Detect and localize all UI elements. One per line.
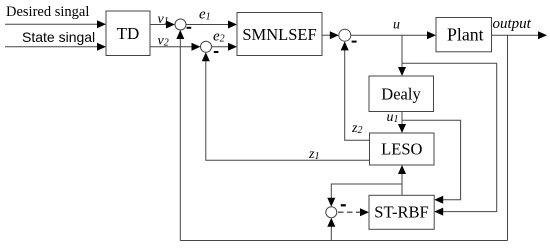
arrow into ST-RBF right 1 (434, 196, 443, 204)
block Dealy (369, 76, 434, 112)
arrow into TD (desired) (97, 20, 106, 28)
wire state-signal input (5, 46, 98, 48)
label u (393, 17, 400, 32)
wire dashed sum4 to ST-RBF (338, 211, 361, 213)
svg-text:u: u (393, 17, 400, 32)
arrow into sum2 from v2 (192, 43, 201, 51)
arrow into sum1 from v1 (166, 21, 175, 29)
wire e1 (186, 24, 229, 26)
wire bus up to sum1 (179, 38, 181, 241)
block TD (106, 11, 150, 56)
arrow output end (538, 31, 547, 39)
wire bottom bus (180, 240, 507, 242)
wire v2 (150, 46, 193, 48)
wire u1 branch to ST-RBF right input 1 (402, 120, 461, 200)
label e1 (199, 6, 211, 22)
minus sign at S1 (187, 27, 192, 29)
summing junction S1 (175, 19, 186, 30)
minus sign at S2 (214, 51, 219, 53)
summing junction S2 (201, 41, 212, 52)
arrow into TD (state) (97, 43, 106, 51)
wire z2 to sum3 (345, 49, 370, 141)
arrow into SMNLSEF e2 (228, 43, 237, 51)
label Desired singal (6, 4, 89, 20)
minus sign at S3 (352, 41, 357, 43)
wire u to ST-RBF right input 2 (402, 63, 497, 211)
label v1 (158, 12, 169, 27)
arrow into ST-RBF right 2 (434, 208, 443, 216)
label z1 (308, 147, 319, 162)
arrow into SMNLSEF e1 (228, 21, 237, 29)
wire bus up to sum4 (330, 225, 332, 241)
svg-text:Desired singal: Desired singal (6, 4, 89, 20)
svg-text:ST-RBF: ST-RBF (374, 203, 428, 222)
svg-text:LESO: LESO (381, 140, 422, 159)
wire desired-signal input (5, 23, 98, 25)
label v2 (158, 34, 169, 49)
wire z1 to sum2 (206, 60, 370, 161)
minus sign at S4 (341, 204, 346, 206)
arrow into Dealy top (398, 67, 406, 76)
arrow into sum3 bottom (341, 41, 349, 50)
label State singal (22, 29, 95, 45)
arrow into Plant (427, 31, 436, 39)
wire output feedback down (507, 35, 509, 240)
arrow into sum3 (330, 31, 339, 39)
arrow into sum1 bottom (176, 30, 184, 39)
label u1 (387, 110, 399, 125)
arrow into sum4 top (327, 198, 335, 207)
wire branch to sum4 top (331, 184, 402, 200)
arrow into sum4 bottom (327, 218, 335, 227)
arrow into LESO bottom (398, 165, 406, 174)
block SMNLSEF (237, 13, 322, 56)
wire SMNLSEF to sum3 (322, 34, 331, 36)
label z2 (351, 121, 362, 136)
svg-text:Plant: Plant (447, 24, 484, 44)
wire Dealy to LESO u1 (401, 112, 403, 126)
label output (493, 16, 532, 32)
wire u branch down to Dealy (401, 35, 403, 68)
svg-text:output: output (493, 16, 532, 32)
block Plant (436, 18, 492, 52)
arrowheads (97, 20, 547, 227)
label e2 (213, 29, 225, 45)
arrow into sum2 bottom (202, 52, 210, 61)
summing junction S4 (326, 207, 337, 218)
svg-text:SMNLSEF: SMNLSEF (242, 25, 316, 44)
wire output (492, 34, 540, 36)
block LESO (370, 133, 435, 165)
arrow into LESO top (398, 124, 406, 133)
svg-text:TD: TD (117, 24, 140, 43)
svg-text:State singal: State singal (22, 29, 95, 45)
block ST-RBF (369, 195, 434, 229)
wire e2 (212, 46, 230, 48)
svg-text:Dealy: Dealy (381, 84, 421, 103)
summing junction S3 (339, 29, 351, 41)
arrow into ST-RBF left dashed (360, 208, 369, 216)
wire ST-RBF to LESO (401, 173, 403, 196)
wire u (351, 34, 428, 36)
wire v1 (150, 24, 167, 26)
